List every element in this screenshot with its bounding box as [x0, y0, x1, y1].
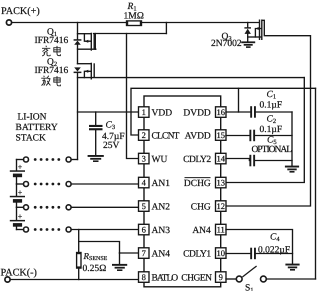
label Q1 charge (CJK) [42, 46, 60, 56]
ground C3 [88, 155, 104, 162]
svg-text:1MΩ: 1MΩ [124, 12, 145, 22]
pin 16 [216, 107, 227, 118]
transistor Q3 [244, 20, 262, 42]
svg-text:IFR7416: IFR7416 [35, 66, 69, 76]
wire pin15 to C2 [226, 135, 249, 137]
svg-text:11: 11 [217, 225, 225, 235]
svg-text:AN3: AN3 [152, 226, 171, 236]
svg-text:8: 8 [142, 272, 146, 282]
svg-text:3: 3 [142, 154, 146, 164]
pin 9 [216, 272, 227, 283]
wire battery row2 to AN1 [17, 182, 139, 187]
value 4.7µF [102, 132, 125, 142]
svg-text:0.022µF: 0.022µF [258, 246, 290, 256]
svg-text:CLCNT: CLCNT [152, 131, 180, 141]
svg-text:13: 13 [216, 178, 225, 188]
wire DVDD riser [238, 88, 240, 112]
svg-text:DCHG: DCHG [184, 179, 211, 189]
value 1MΩ [124, 12, 145, 22]
svg-text:CHG: CHG [191, 202, 211, 212]
svg-text:0.25Ω: 0.25Ω [83, 264, 107, 274]
label Q1 [47, 28, 57, 39]
pin 5 [139, 201, 150, 212]
node PACK(+) label [1, 6, 40, 17]
wire AN4 to pin7 [120, 252, 139, 254]
pin 15 [216, 130, 227, 141]
svg-text:9: 9 [219, 272, 223, 282]
svg-text:+: + [18, 163, 23, 172]
label C4 [270, 233, 280, 244]
wire pin14 to C5 [226, 159, 249, 161]
svg-text:14: 14 [216, 154, 225, 164]
pin 12 [216, 201, 227, 212]
svg-text:IFR7416: IFR7416 [35, 36, 69, 46]
wire Q1 gate line [94, 33, 167, 35]
label OPTIONAL [252, 145, 293, 155]
svg-text:LI-ION: LI-ION [18, 113, 47, 123]
battery cell 3 [10, 207, 25, 229]
svg-text:2: 2 [142, 130, 146, 140]
svg-text:0.1µF: 0.1µF [260, 100, 283, 110]
wire DVDD-S1 vertical [315, 88, 317, 279]
svg-text:6: 6 [142, 225, 146, 235]
pin 2 [139, 130, 150, 141]
pin 11 [216, 224, 227, 235]
battery cell 2 [10, 184, 25, 207]
label C3 [106, 121, 116, 132]
svg-text:5: 5 [142, 201, 146, 211]
capacitor C4 [250, 248, 292, 260]
svg-text:AVDD: AVDD [185, 131, 211, 141]
wire Q2 gate line to DCHG riser [78, 77, 305, 79]
svg-text:BATTERY: BATTERY [16, 123, 58, 133]
svg-text:2N7002: 2N7002 [211, 39, 242, 49]
wire DCHG vertical [226, 78, 304, 183]
svg-text:VDD: VDD [152, 108, 173, 118]
wire PACK(-) to BATLO [10, 279, 138, 281]
label C5 [267, 136, 277, 147]
label Q2 IFR7416 [35, 66, 69, 76]
label S1 [245, 284, 254, 291]
wire battery row3 to AN2 [17, 205, 139, 210]
switch S1 [236, 266, 266, 282]
pin 10 [216, 248, 227, 258]
svg-text:10: 10 [216, 248, 225, 258]
wire battery row4 to AN3 [17, 227, 139, 232]
svg-text:+: + [18, 212, 23, 221]
ground bypass caps [285, 166, 299, 173]
capacitor C3 [89, 112, 103, 155]
svg-text:WU: WU [152, 155, 168, 165]
svg-text:OPTIONAL: OPTIONAL [252, 145, 293, 155]
wire PACK(+) to R1 [12, 22, 127, 24]
pin 3 [139, 153, 150, 164]
IC pin names left [152, 108, 180, 283]
svg-text:25V: 25V [103, 141, 120, 151]
pin 14 [216, 153, 227, 164]
capacitor C1 [250, 106, 292, 118]
wire sense node [78, 230, 80, 253]
pin 7 [139, 248, 150, 258]
svg-text:12: 12 [216, 201, 225, 211]
svg-text:15: 15 [216, 130, 225, 140]
node dots row4 [34, 228, 60, 231]
label C2 [267, 114, 277, 125]
label LI-ION BATTERY STACK [16, 113, 58, 144]
svg-text:PACK(+): PACK(+) [1, 6, 40, 17]
transistor Q1 [74, 23, 96, 64]
value C4 0.022µF [258, 246, 290, 256]
node dots row1 [34, 158, 60, 161]
wire R1 to Q3 gate [142, 22, 260, 24]
svg-text:BATLO: BATLO [152, 273, 179, 283]
pin 6 [139, 224, 150, 235]
wire battery row1 [17, 157, 78, 162]
wire RSENSE to PACK(-) [78, 268, 80, 279]
wire AN4 tap [79, 242, 120, 254]
wire pin16 to C1 [226, 111, 250, 113]
pin 1 [139, 107, 150, 118]
value 25V [103, 141, 120, 151]
label Q2 discharge (CJK) [41, 76, 60, 86]
capacitor C5 [249, 155, 292, 167]
resistor R1 [126, 21, 141, 26]
svg-text:AN4: AN4 [152, 249, 171, 259]
capacitor C2 [249, 130, 292, 142]
battery cell 1 [10, 160, 25, 185]
label Q1 IFR7416 [35, 36, 69, 46]
value 0.25Ω [83, 264, 107, 274]
pin 13 [216, 177, 227, 188]
svg-text:AN4: AN4 [192, 226, 211, 236]
IC pin names right [181, 108, 212, 283]
node dots row2 [34, 183, 60, 186]
svg-text:1: 1 [142, 107, 146, 117]
terminal PACK(-) [5, 277, 10, 282]
wire pin11 AN4 to ground [226, 230, 293, 264]
terminal PACK(+) [6, 20, 11, 25]
transistor Q2 [74, 63, 95, 160]
wire gate node riser [165, 23, 167, 34]
wire pin1 VDD to battery top [78, 111, 139, 113]
wire CLCNT riser [131, 88, 316, 135]
ground Q3 source [241, 41, 255, 47]
ground AN4 [112, 253, 127, 271]
resistor RSENSE [76, 252, 81, 268]
label C1 [267, 90, 277, 101]
svg-text:CDLY2: CDLY2 [183, 155, 211, 165]
label R1 [127, 2, 137, 13]
value C2 0.1µF [260, 125, 283, 135]
svg-text:STACK: STACK [16, 133, 47, 143]
wire WU vertical [127, 34, 139, 159]
svg-text:7: 7 [142, 248, 146, 258]
overline DCHG [185, 177, 211, 179]
svg-text:CDLY1: CDLY1 [183, 249, 211, 259]
label PACK(-) [1, 267, 37, 278]
label Q3 [222, 32, 232, 43]
svg-text:+: + [18, 188, 23, 197]
label Q2 [47, 58, 57, 69]
wire Q3 drain to CHG [226, 20, 311, 206]
node dots row3 [34, 206, 60, 209]
svg-text:DVDD: DVDD [183, 108, 211, 118]
svg-text:AN1: AN1 [152, 179, 171, 189]
value C1 0.1µF [260, 100, 283, 110]
svg-text:0.1µF: 0.1µF [260, 125, 283, 135]
ground C4 [285, 264, 299, 271]
svg-text:16: 16 [216, 107, 225, 117]
wire pin9 to S1 [226, 278, 236, 280]
svg-text:AN2: AN2 [152, 202, 171, 212]
wire bypass ground vertical [291, 112, 293, 166]
pin 8 [139, 272, 150, 283]
wire pin10 to C4 [226, 253, 250, 255]
wire S1 to right rail [267, 278, 316, 280]
pin 4 [139, 177, 150, 188]
svg-text:4: 4 [142, 178, 147, 188]
svg-text:CHGEN: CHGEN [181, 273, 212, 283]
label Q3 2N7002 [211, 39, 242, 49]
label RSENSE [83, 251, 108, 262]
IC U1 body [144, 96, 221, 287]
